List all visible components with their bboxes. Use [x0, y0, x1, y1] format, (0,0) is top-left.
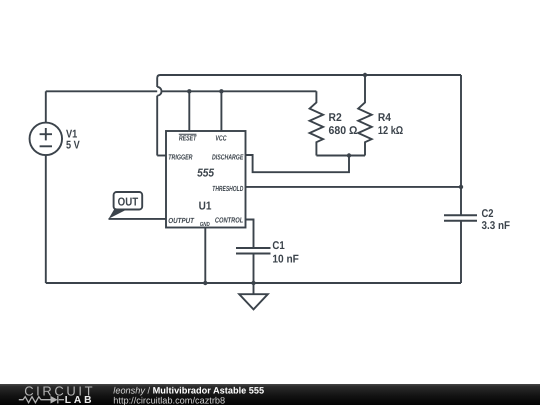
wire THRESHOLD to right rail	[246, 186, 462, 188]
svg-text:10 nF: 10 nF	[272, 253, 299, 265]
junction threshold right rail	[459, 185, 463, 189]
label R4 value	[378, 112, 403, 137]
junction C1 bottom rail	[251, 281, 255, 285]
svg-text:3.3 nF: 3.3 nF	[482, 220, 511, 232]
junction R2/R4 bottom discharge	[347, 153, 351, 157]
svg-text:THRESHOLD: THRESHOLD	[212, 184, 243, 193]
svg-text:C2: C2	[482, 208, 494, 220]
capacitor C1	[236, 248, 271, 254]
svg-text:http://circuitlab.com/caztrb8: http://circuitlab.com/caztrb8	[113, 396, 225, 405]
wire TRIGGER pin stub	[157, 155, 166, 157]
junction RESET/VCC rail	[187, 89, 191, 93]
svg-text:U1: U1	[199, 201, 212, 213]
svg-text:TRIGGER: TRIGGER	[168, 153, 193, 162]
svg-text:VCC: VCC	[215, 134, 227, 143]
wire trigger riser upper	[156, 78, 158, 87]
wire right rail lower (C2 bottom to bottom rail)	[460, 221, 462, 283]
wire V1 top lead	[45, 91, 47, 122]
svg-text:C1: C1	[272, 240, 284, 252]
resistor R2	[310, 91, 324, 155]
wire GND pin stub	[204, 228, 206, 284]
wire R2 R4 bottom link	[316, 155, 365, 157]
wire VCC rail right segment (hop to R2 corner)	[162, 90, 317, 92]
svg-text:R2: R2	[329, 112, 342, 124]
op-amp U1 555 IC body	[166, 131, 246, 228]
wire left rail (V1 bottom to bottom rail)	[45, 155, 47, 283]
wire top rail from trigger riser to right rail	[157, 75, 461, 78]
logo resistor-diode glyph	[19, 396, 64, 403]
pin label RESET with overline	[179, 134, 198, 143]
svg-text:RESET: RESET	[179, 134, 198, 143]
wire VCC pin stub	[220, 91, 222, 131]
wire DISCHARGE to R2/R4 junction	[246, 155, 350, 172]
label C1 value	[272, 240, 299, 265]
junction R4 top rail	[363, 73, 367, 77]
wire hop over VCC rail	[157, 87, 161, 96]
svg-text:R4: R4	[378, 112, 392, 124]
svg-text:12 kΩ: 12 kΩ	[378, 125, 403, 137]
wire RESET pin stub	[188, 91, 190, 131]
svg-text:V1: V1	[66, 128, 77, 140]
svg-text:555: 555	[197, 168, 215, 180]
wire VCC rail left segment (V1 to hop)	[46, 90, 157, 92]
wire trigger riser lower	[156, 96, 158, 156]
node OUT flag	[109, 192, 143, 219]
wire CONTROL to C1	[246, 220, 254, 249]
svg-text:DISCHARGE: DISCHARGE	[212, 153, 244, 162]
wire OUTPUT pin stub	[109, 218, 167, 220]
svg-text:LAB: LAB	[65, 395, 95, 405]
wire C1 bottom lead	[253, 254, 255, 284]
svg-text:OUT: OUT	[118, 196, 139, 208]
junction VCC pin	[219, 89, 223, 93]
junction GND bottom rail	[203, 281, 207, 285]
voltage source V1	[30, 123, 63, 156]
wire right rail upper (to C2 top)	[460, 75, 462, 215]
label C2 value	[482, 208, 511, 232]
label R2 value	[329, 112, 358, 137]
footer bar	[0, 384, 540, 405]
svg-text:OUTPUT: OUTPUT	[168, 216, 195, 225]
label V1 value	[66, 128, 80, 151]
svg-text:5 V: 5 V	[66, 140, 80, 152]
svg-text:leonshy / Multivibrador Astabl: leonshy / Multivibrador Astable 555	[113, 386, 264, 396]
svg-text:680 Ω: 680 Ω	[329, 125, 358, 137]
resistor R4	[358, 75, 372, 156]
svg-text:CONTROL: CONTROL	[215, 215, 244, 224]
ground	[239, 283, 268, 309]
capacitor C2	[444, 215, 477, 220]
svg-text:GND: GND	[200, 221, 210, 228]
wire bottom rail	[46, 282, 461, 284]
